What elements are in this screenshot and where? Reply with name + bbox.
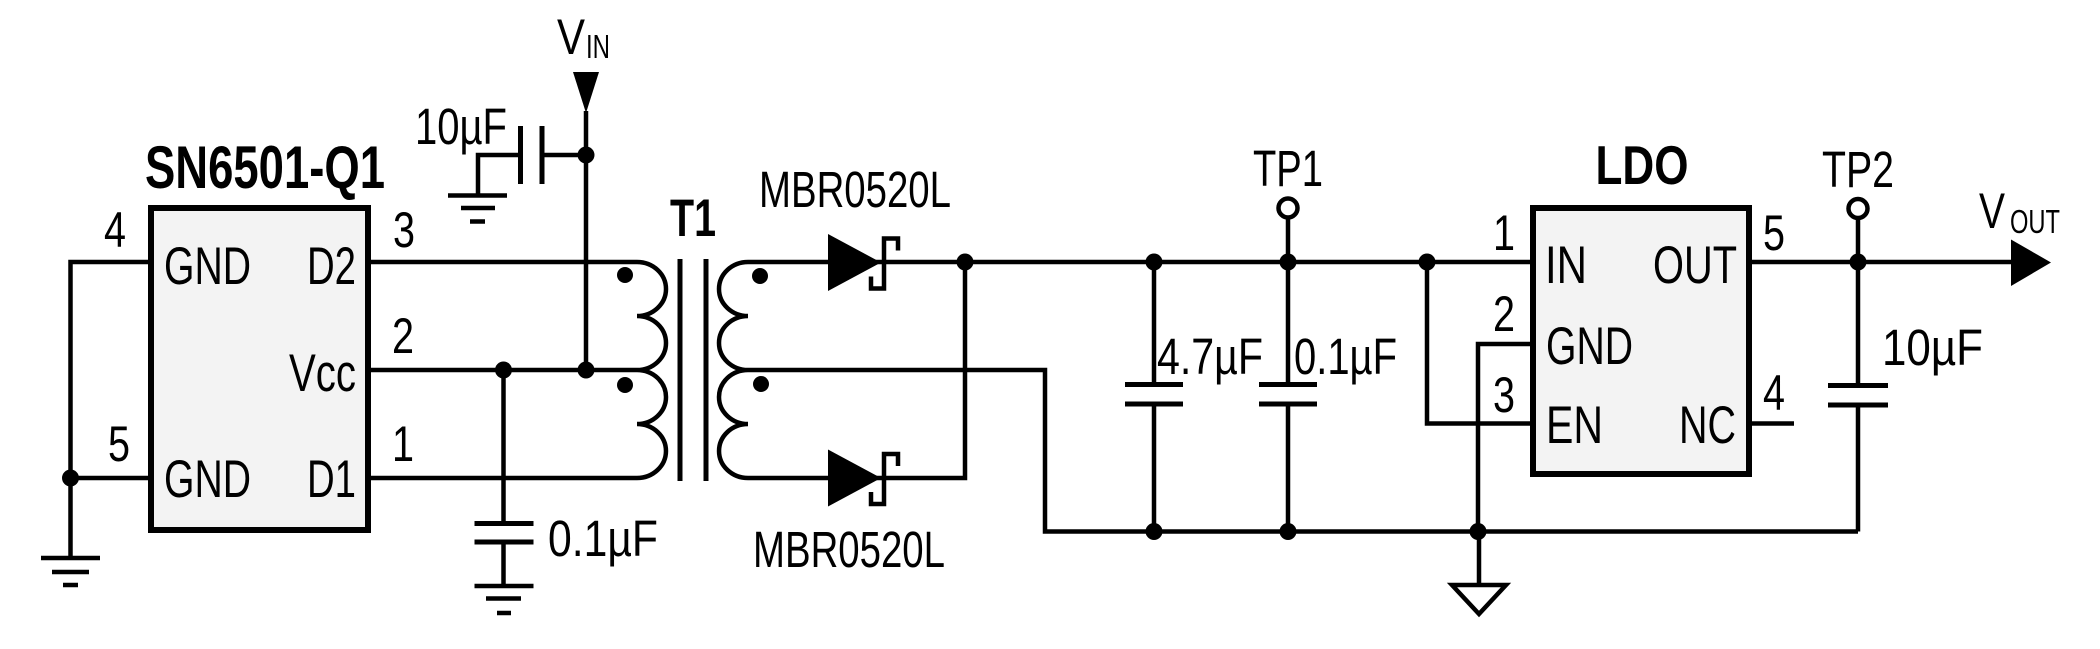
- wire C1 right plate to VIN line: [542, 153, 586, 158]
- wire D1 (pin 1) to transformer: [371, 476, 637, 481]
- wire secondary center tap to bottom rail: [748, 370, 1858, 532]
- ground (earth) left: [41, 558, 100, 585]
- node C3 top junction: [1146, 254, 1163, 271]
- svg-text:IN: IN: [586, 28, 610, 65]
- VIN terminal arrow: [573, 72, 599, 113]
- wire pin4 GND to left vertical: [71, 262, 149, 477]
- svg-text:D1: D1: [307, 450, 356, 509]
- node C4 top junction: [1280, 254, 1297, 271]
- svg-text:Vcc: Vcc: [289, 344, 356, 403]
- IC U1 SN6501-Q1 body: [151, 208, 368, 530]
- svg-text:OUT: OUT: [1653, 236, 1737, 295]
- node VIN/Vcc junction: [578, 362, 595, 379]
- node EN/IN junction: [1419, 254, 1436, 271]
- svg-text:GND: GND: [164, 450, 251, 509]
- node Vcc/C2 junction: [495, 362, 512, 379]
- node C3 bottom junction: [1146, 523, 1163, 540]
- wire secondary bottom to diode D2: [748, 262, 965, 478]
- svg-text:SN6501-Q1: SN6501-Q1: [145, 134, 385, 201]
- node TP2/C6 junction: [1850, 254, 1867, 271]
- capacitor C3 bottom lead: [1152, 406, 1157, 532]
- phase dot primary top: [617, 267, 633, 283]
- diode D2 schottky cathode: [871, 454, 898, 504]
- capacitor C1 10uF plates: [521, 126, 543, 184]
- svg-text:4: 4: [1763, 365, 1785, 421]
- svg-text:10µF: 10µF: [415, 98, 507, 155]
- transformer T1 core: [680, 259, 706, 481]
- wire gnd stub: [68, 478, 73, 558]
- transformer T1 secondary winding: [719, 262, 748, 478]
- wire EN tie to IN: [1427, 262, 1533, 424]
- ground (power) triangle: [1452, 585, 1506, 614]
- wire D2 (pin 3) to transformer: [371, 260, 637, 265]
- phase dot secondary bottom: [753, 376, 769, 392]
- wire C2 to ground: [501, 544, 506, 586]
- capacitor C3 4.7uF top lead: [1152, 262, 1157, 382]
- wire Vcc (pin 2) to transformer center tap: [371, 368, 637, 373]
- capacitor C2 0.1uF plates: [475, 524, 534, 543]
- node VIN/C1 junction: [578, 147, 595, 164]
- diode D2 MBR0520L bottom triangle: [828, 450, 881, 507]
- node junction pin5/gnd: [62, 470, 79, 487]
- wire OUT to VOUT: [1749, 260, 2014, 265]
- wire C1 left plate to ground: [478, 155, 521, 194]
- ground (earth) under C2: [475, 586, 534, 613]
- svg-text:2: 2: [392, 308, 414, 364]
- wire secondary top to rail: [748, 260, 1533, 265]
- svg-text:V: V: [1979, 183, 2005, 239]
- svg-text:TP2: TP2: [1822, 141, 1894, 198]
- capacitor C6 10uF top lead: [1856, 262, 1861, 383]
- svg-text:MBR0520L: MBR0520L: [753, 521, 945, 578]
- svg-text:1: 1: [392, 416, 414, 472]
- svg-text:0.1µF: 0.1µF: [1294, 328, 1397, 385]
- capacitor C4 bottom lead: [1286, 406, 1291, 532]
- test point TP2 circle: [1849, 199, 1868, 218]
- svg-text:LDO: LDO: [1596, 134, 1689, 196]
- svg-text:5: 5: [1763, 205, 1785, 261]
- node GND/rail junction: [1470, 523, 1487, 540]
- svg-text:GND: GND: [164, 237, 251, 296]
- capacitor C6 bottom lead: [1856, 407, 1861, 532]
- IC U2 LDO body: [1533, 208, 1749, 474]
- svg-text:1: 1: [1493, 205, 1515, 261]
- svg-text:3: 3: [393, 202, 415, 258]
- wire pin5 GND: [71, 476, 149, 481]
- node C4 bottom junction: [1280, 523, 1297, 540]
- VOUT terminal arrow: [2011, 240, 2051, 287]
- ground (earth) under C1: [448, 196, 507, 222]
- wire LDO GND pin to bottom rail: [1478, 344, 1533, 532]
- test point TP1 circle: [1279, 199, 1298, 218]
- phase dot primary bottom: [617, 377, 633, 393]
- diode D1 schottky cathode: [871, 239, 898, 289]
- wire TP1 to rail and capacitor C4: [1286, 218, 1291, 382]
- svg-text:0.1µF: 0.1µF: [548, 510, 658, 567]
- svg-text:V: V: [557, 9, 586, 65]
- svg-text:2: 2: [1493, 286, 1515, 342]
- capacitor C6 10uF plates: [1828, 386, 1888, 406]
- wire ground stub: [1477, 532, 1482, 586]
- capacitor C3 4.7uF plates: [1125, 385, 1183, 405]
- svg-text:NC: NC: [1679, 396, 1736, 455]
- svg-text:OUT: OUT: [2010, 203, 2060, 240]
- svg-text:D2: D2: [307, 237, 356, 296]
- wire VIN vertical: [584, 111, 589, 370]
- diode D1 MBR0520L top triangle: [828, 234, 881, 291]
- wire NC stub: [1749, 421, 1794, 426]
- svg-text:3: 3: [1493, 367, 1515, 423]
- node diode outputs junction: [957, 254, 974, 271]
- svg-text:TP1: TP1: [1253, 140, 1323, 197]
- svg-text:4.7µF: 4.7µF: [1157, 328, 1263, 385]
- svg-text:GND: GND: [1546, 317, 1633, 376]
- transformer T1 primary winding: [637, 262, 666, 478]
- capacitor C4 0.1uF plates: [1259, 385, 1317, 405]
- svg-text:10µF: 10µF: [1882, 319, 1983, 376]
- svg-text:IN: IN: [1545, 236, 1587, 295]
- wire TP2 lead: [1856, 218, 1861, 262]
- svg-text:MBR0520L: MBR0520L: [759, 161, 951, 218]
- svg-text:4: 4: [104, 202, 126, 258]
- phase dot secondary top: [752, 268, 768, 284]
- capacitor C2 0.1uF lead: [501, 370, 506, 521]
- svg-text:T1: T1: [670, 189, 716, 248]
- svg-text:EN: EN: [1546, 396, 1603, 455]
- svg-text:5: 5: [108, 416, 130, 472]
